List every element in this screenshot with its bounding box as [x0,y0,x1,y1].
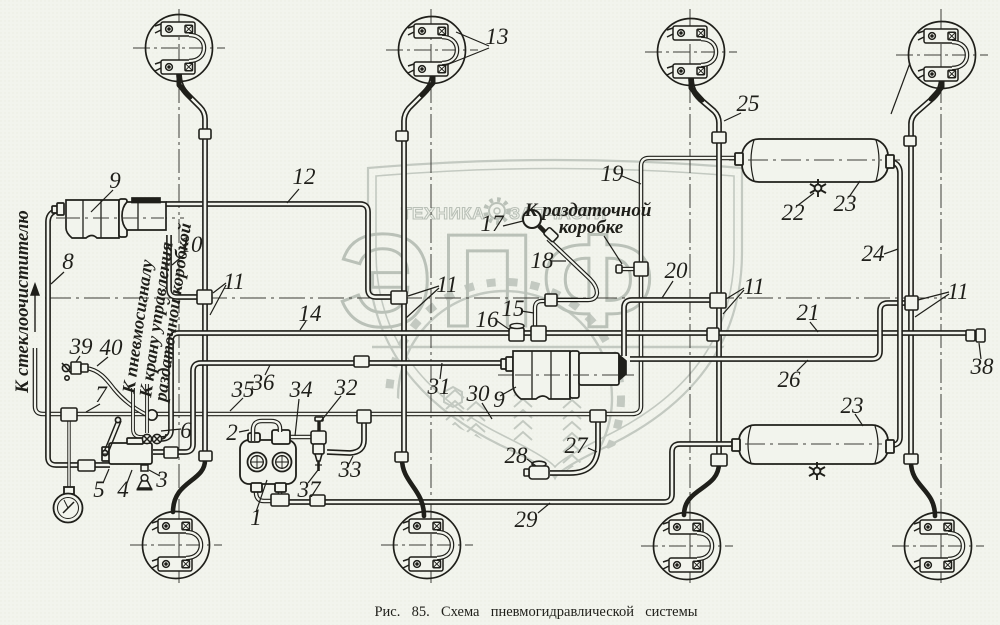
tube from fourth top wheel down (column 4) [911,75,942,455]
pressure gauge [54,487,83,523]
svg-text:коробке: коробке [559,217,624,238]
leader 17 [503,221,523,226]
coupling on column 4 [904,136,916,146]
leader 27 [588,448,597,452]
horizontal chassis centerline [45,297,946,299]
caption [374,604,697,620]
coupling on tube 37 [310,495,325,506]
svg-text:4: 4 [117,477,129,502]
leader 31 [440,363,442,379]
svg-text:11: 11 [436,272,457,297]
connector 38 part 1 [966,330,975,341]
label 23 bottom [841,393,864,418]
svg-text:40: 40 [100,335,124,360]
leader 24 [884,249,898,254]
svg-text:16: 16 [476,307,500,332]
leader 11d2 [915,294,949,317]
tube 40 from valve 39 to junction [86,368,147,415]
leader 13b [444,48,489,66]
tube 7/35 manifold and tube 19 to top air tank [35,158,738,414]
thick hose at top wheel 2 [422,68,433,95]
top wheel 3 brake assembly [658,19,725,86]
leader 28 [527,459,536,466]
svg-text:25: 25 [737,91,760,116]
tee fitting 11 column 4 [905,296,918,310]
label 36 [251,370,276,395]
wheel horizontal centerlines [130,48,988,546]
coupling above hose 1 [199,451,212,461]
watermark shield emblem [339,160,742,514]
booster axis lines [56,218,634,375]
coupling on column 3 [712,132,726,143]
flexible hose to bottom wheel 1 [173,459,205,512]
text: to transfer box control valve line 1 [135,240,177,399]
tee fitting 11 column 3 [710,293,726,308]
leader 20 [662,281,673,298]
cap of coupling 16 [510,323,524,328]
label 2 [226,420,238,445]
fitting on tube 15 [545,294,557,306]
label 26 [778,367,802,392]
svg-text:Рис. 85. Схема пневмогидрав: Рис. 85. Схема пневмогидравлической сист… [374,604,697,620]
svg-text:21: 21 [797,300,820,325]
stub to transfer box control valve [145,384,149,433]
leader 29 [538,503,550,513]
top air tank 23 [735,139,894,182]
svg-text:35: 35 [231,377,255,402]
svg-text:39: 39 [69,334,94,359]
axis line over left booster [64,217,164,219]
label 11b [436,272,457,297]
leader 11a2 [210,285,226,315]
leader 30 [482,403,492,419]
leader transfer case text [604,236,622,264]
leader 6 [161,429,181,431]
svg-text:11: 11 [947,279,968,304]
component 17 ball fitting [523,210,547,234]
thick hose at top wheel 3 [691,74,702,100]
air-hydraulic booster 9 (left) [52,198,166,238]
tee on tube 35 to tube 27 [590,410,606,422]
label 30 [466,381,491,406]
coupling on tube 36 start [164,447,178,458]
svg-text:7: 7 [95,382,108,407]
leader 18 [551,260,566,262]
svg-text:15: 15 [502,296,525,321]
leader 40 [97,357,108,366]
leader 11d1 [918,292,949,300]
coupling on tube 21 [707,328,719,341]
label 25 [737,91,760,116]
svg-text:20: 20 [665,258,689,283]
svg-text:23: 23 [841,393,864,418]
vertical axle centerlines [179,9,941,583]
handle loop 2 on valve 1 [253,421,280,441]
label 38 [970,354,995,379]
svg-text:3: 3 [155,467,168,492]
svg-text:24: 24 [862,241,885,266]
leader 9 left [91,190,113,212]
svg-text:34: 34 [289,377,313,402]
svg-text:13: 13 [486,24,509,49]
label 11c [743,274,764,299]
label 37 [297,477,323,502]
label 11a [223,269,244,294]
leader 4 [127,470,132,483]
text: to transfer box control valve line 2 [150,222,195,405]
open end cap of transfer stub [616,265,622,273]
svg-text:28: 28 [505,443,529,468]
coupling on tube 8 [78,460,95,471]
tee fitting 11 column 1 [197,290,212,304]
label 31 [427,374,451,399]
label 7 [95,382,108,407]
label 17 [481,211,506,236]
label 9 left [109,168,121,193]
elbow fitting under valve 1 [271,494,289,506]
svg-text:38: 38 [970,354,995,379]
svg-text:22: 22 [782,200,805,225]
label 4 [117,477,129,502]
drain valve on bottom tank [809,462,825,480]
leader 10 [172,253,186,265]
label 19 [601,161,625,186]
air-hydraulic booster 9 (middle) [501,351,626,399]
tube 24 connecting top and bottom air tanks [889,162,900,445]
label 18 [531,248,555,273]
svg-text:6: 6 [180,418,192,443]
label 27 [565,433,590,458]
leader 19 [622,176,641,184]
flexible hose to bottom wheel 2 [402,459,424,516]
svg-text:32: 32 [334,375,358,400]
label 40 [100,335,124,360]
leader 14 [300,321,306,330]
svg-text:37: 37 [297,477,323,502]
tube 27 to drain valve 28 [550,421,598,473]
coupling on column 1 [199,129,211,139]
banjo fittings 6 on master cylinder [142,434,166,444]
tube 26 from mid booster to column 4 tee [630,303,905,359]
bottom wheel 4 brake assembly [905,513,972,580]
label 34 [289,377,313,402]
label 13 [486,24,509,49]
leader 11c2 [723,290,744,314]
top wheel 4 brake assembly [909,22,976,89]
tube 37/29 hydraulic line to bottom tank [289,444,735,502]
branch from tube 35 down to valve 32 [327,423,364,453]
leader 5 [103,469,109,483]
leader 25 [724,113,741,121]
svg-text:5: 5 [93,477,105,502]
svg-text:26: 26 [778,367,802,392]
coupling above hose 2 [395,452,408,462]
leader 39 [76,356,80,362]
tee to pressure gauge [61,408,77,421]
leader 34 [295,399,299,436]
fitting on tube 18 [543,227,559,242]
air tank axis lines [726,160,900,444]
svg-text:К стеклоочистителю: К стеклоочистителю [13,210,33,394]
svg-text:8: 8 [62,249,74,274]
text: to pneumatic horn [118,257,157,395]
leader 11a1 [213,283,226,293]
tube 12 from booster to front axle tee [166,204,394,297]
valve 32 assembly [311,417,326,471]
connector 38 part 2 [976,329,985,342]
svg-text:11: 11 [223,269,244,294]
windshield wiper flow arrow [31,284,39,332]
axis line over bottom air tank [745,443,882,445]
tee on tube 19 to transfer case [634,262,648,276]
label 24 [862,241,885,266]
top wheel 2 brake assembly [399,17,466,84]
bottom wheel 3 brake assembly [654,513,721,580]
tee on tube 35 to valve 32 [357,410,371,423]
label 35 [231,377,255,402]
text: to windshield wiper [13,210,33,394]
label 14 [299,301,322,326]
label 15 [502,296,525,321]
leader 1 [256,480,267,512]
label 6 [180,418,192,443]
label 32 [334,375,358,400]
leader 36 [265,365,270,375]
bottom wheel 1 brake assembly [143,512,210,579]
label 22 [782,200,805,225]
tube 36 from master cylinder to mid booster [153,363,505,452]
leader 7 [86,404,100,412]
drain valve 28 [524,461,549,479]
leader 35 [230,398,243,411]
leader 2 [239,430,249,432]
text: to transfer case [524,200,652,238]
tube 15 down to air line tee [535,301,546,327]
svg-text:30: 30 [466,381,491,406]
svg-text:29: 29 [515,507,539,532]
coupling above hose 3 [711,454,727,466]
leader 23 bottom [855,414,863,426]
label 33 [338,457,362,482]
svg-text:2: 2 [226,420,238,445]
coupling on tube 36 [354,356,369,367]
leader 8 [51,272,64,284]
tube 34 from valve 2 to valve 32 [290,435,312,440]
label 5 [93,477,105,502]
svg-text:19: 19 [601,161,625,186]
brake valve 1 with ports [240,430,296,492]
leader 15 [521,311,534,313]
bottom air tank 23 [732,425,894,464]
stub to transfer case valve [621,267,636,271]
coupling above hose 4 [904,454,918,464]
svg-text:12: 12 [293,164,316,189]
label 12 [293,164,316,189]
valve 39 with handle [62,362,88,380]
svg-text:9: 9 [109,168,121,193]
flexible hose to bottom wheel 4 [911,462,935,516]
leader 11b1 [408,286,439,296]
leader 26 [797,360,808,371]
label 1 [250,505,262,530]
tube 20 from mid booster to column 3 tee [624,300,712,356]
svg-text:31: 31 [427,374,451,399]
leader 12 [287,189,299,203]
stub to pneumatic horn [133,388,146,437]
svg-text:23: 23 [834,191,857,216]
axis line over top air tank [748,159,882,161]
label 39 [69,334,94,359]
label 10 [180,232,204,257]
label 20 [665,258,689,283]
drain valve 22 on top tank [810,179,826,197]
thick hose at top wheel 4 [931,73,942,99]
tee fitting 11 column 2 [391,291,407,304]
svg-text:27: 27 [565,433,590,458]
label 8 [62,249,74,274]
leader 13a [456,32,489,46]
svg-text:9: 9 [493,387,505,412]
label 29 [515,507,539,532]
leader 38 [979,343,981,359]
coupling on column 2 [396,131,408,141]
thick hose at top wheel 1 [179,70,190,97]
leader 11b2 [406,288,439,318]
leader 23 top [849,181,860,197]
svg-text:14: 14 [299,301,322,326]
right outlet stub of valve 1 [278,478,283,494]
tube from top-left wheel down (line 11 column 1) [179,72,205,453]
tube 10 from booster to column-1 tee [169,235,198,297]
label 3 [155,467,168,492]
leader 11c1 [726,288,744,299]
gauge stub line [67,421,70,487]
ball junction of tube 40 and tube 7 [147,410,157,420]
label 28 [505,443,529,468]
tee 15 on tube 14 [531,326,546,341]
svg-text:18: 18 [531,248,555,273]
leader to fourth top wheel [891,63,910,114]
bottom wheel 2 brake assembly [394,512,461,579]
label 16 [476,307,500,332]
tube 25 from third top wheel down (column 3) [691,76,719,455]
leader 32 [321,396,341,421]
hydraulic master cylinder 4 with lever 5 [102,417,152,464]
tube from second top wheel down (column 2) [404,70,433,452]
label 23 top [834,191,857,216]
top wheel 1 brake assembly [146,15,213,82]
flexible hose to bottom wheel 3 [684,463,719,515]
leader 9 middle [500,387,516,396]
leader 37 [308,470,318,483]
tube 8 from booster to hydraulic cylinder [48,211,110,465]
leader 21 [810,322,818,332]
svg-text:17: 17 [481,211,506,236]
label 9 middle [493,387,505,412]
tube 14/21 long air line to rear connector [161,333,968,439]
leader 16 [497,321,510,330]
svg-text:1: 1 [250,505,262,530]
drain funnel 3 [137,465,153,490]
tube 18 from component 17 [548,239,597,300]
coupling 16 on tube 14 [509,328,524,341]
label 21 [797,300,820,325]
leader 33 [349,456,353,464]
leader 22 [797,193,814,206]
axis line over middle booster [515,374,618,376]
label 11d [947,279,968,304]
svg-text:33: 33 [338,457,362,482]
leader 3 [149,470,160,476]
left outlet stub of valve 1 [256,478,274,501]
svg-text:11: 11 [743,274,764,299]
